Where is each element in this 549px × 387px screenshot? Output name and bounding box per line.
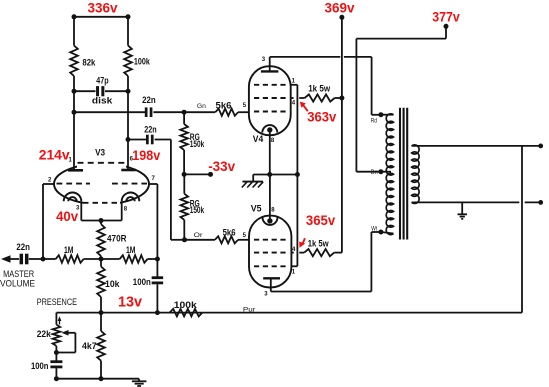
svg-text:100n: 100n <box>31 361 49 371</box>
wire 100k to node <box>127 76 129 91</box>
resistor 1k 5w upper <box>305 94 335 101</box>
tube V4 envelope <box>249 66 291 135</box>
V3 pin3 wire <box>80 201 82 220</box>
svg-text:377v: 377v <box>432 9 460 25</box>
V4 pin1 wire <box>291 84 298 86</box>
wire Pur feedback <box>202 312 522 314</box>
node 336v rail <box>74 16 128 18</box>
svg-text:Or: Or <box>194 232 204 239</box>
svg-text:V3: V3 <box>95 147 105 157</box>
svg-text:22k: 22k <box>37 329 52 339</box>
capacitor 100n upper <box>156 259 158 277</box>
V4 pin4 wire <box>291 97 294 99</box>
resistor 5k6 upper <box>215 109 238 116</box>
svg-text:V4: V4 <box>253 134 263 144</box>
V5 plate pin3 <box>263 277 280 279</box>
svg-text:365v: 365v <box>306 213 335 229</box>
wire 377v to Bn <box>445 26 447 38</box>
wire 336v to 82k <box>73 17 75 46</box>
svg-text:82k: 82k <box>82 58 96 68</box>
tube V5 envelope <box>249 216 291 288</box>
svg-text:22n: 22n <box>16 242 30 252</box>
svg-text:47p: 47p <box>96 76 109 86</box>
V5 grid dashes <box>254 239 287 241</box>
svg-text:V5: V5 <box>251 203 262 213</box>
capacitor 22n upper coupling <box>72 110 77 115</box>
ground chassis center <box>252 175 254 182</box>
tube V3 bottom dashed <box>83 202 121 204</box>
svg-text:198v: 198v <box>132 148 160 164</box>
svg-text:5k6: 5k6 <box>223 227 236 237</box>
svg-text:Wt: Wt <box>371 226 377 232</box>
V3 grid pin7 wire <box>148 183 157 185</box>
resistor 100k feedback <box>170 309 203 317</box>
wire ground rail <box>56 378 139 380</box>
input arrow MASTER VOLUME <box>1 255 11 263</box>
svg-text:1k 5w: 1k 5w <box>308 239 330 249</box>
V4 cathode <box>262 125 277 132</box>
tap Bn <box>378 169 383 174</box>
wire cathodes join <box>81 220 121 222</box>
V4 pin8 wire <box>269 130 271 175</box>
ground earth bottom <box>138 379 140 381</box>
resistor 5k6 lower <box>215 236 238 243</box>
ground earth secondary <box>461 202 463 214</box>
V3 grid pin2 wire <box>43 183 55 185</box>
V3 plate pin6 <box>127 140 129 170</box>
svg-text:-33v: -33v <box>208 159 235 175</box>
capacitor 22n lower coupling <box>126 137 131 142</box>
svg-text:470R: 470R <box>107 234 127 244</box>
svg-text:1M: 1M <box>126 245 136 255</box>
V3 plate pin1 <box>73 112 75 169</box>
V5 pin8 wire <box>269 175 271 221</box>
V5 pin1 wire <box>291 265 297 267</box>
transformer primary winding <box>386 114 393 235</box>
tap Wt <box>378 230 383 235</box>
svg-text:40v: 40v <box>56 209 78 225</box>
svg-text:100k: 100k <box>174 300 198 310</box>
V4 grid dashes <box>254 84 287 86</box>
svg-text:13v: 13v <box>118 294 142 310</box>
resistor 4k7 <box>100 313 102 331</box>
transformer secondary winding <box>412 145 420 204</box>
svg-text:100n: 100n <box>133 277 151 287</box>
resistor 470R <box>100 221 102 225</box>
svg-text:150k: 150k <box>190 205 205 215</box>
svg-text:214v: 214v <box>39 147 70 163</box>
resistor RG 150k upper <box>183 112 185 124</box>
capacitor 100n presence <box>50 360 62 363</box>
svg-text:363v: 363v <box>307 110 336 126</box>
wire secondary bottom <box>412 201 520 203</box>
V4 plate pin3 <box>261 70 279 72</box>
resistor 1M left <box>43 258 56 260</box>
resistor RG 150k lower <box>183 174 185 193</box>
capacitor 22n input <box>20 254 24 265</box>
svg-text:336v: 336v <box>88 1 118 17</box>
svg-text:22n: 22n <box>142 95 156 105</box>
resistor 1M right <box>101 258 120 260</box>
V3 pin8 wire <box>121 201 123 220</box>
capacitor 47p disk <box>74 90 96 92</box>
svg-text:150k: 150k <box>190 139 205 149</box>
V3 cathode right <box>122 193 140 202</box>
resistor 1k 5w lower <box>304 249 334 256</box>
pot wiper <box>62 330 69 336</box>
wire 336v to 100k <box>127 17 129 46</box>
V5 cathode <box>263 217 278 225</box>
wire right plate node down <box>127 91 129 139</box>
potentiometer 22k presence <box>55 313 57 325</box>
wire V4 plate to Rd <box>270 56 341 58</box>
svg-text:100k: 100k <box>134 57 151 67</box>
V5 pin4 wire <box>291 252 293 254</box>
tap Rd <box>378 112 383 117</box>
node presence rail <box>56 312 202 314</box>
node -33v bias <box>182 172 187 177</box>
svg-text:10k: 10k <box>105 279 120 289</box>
resistor 10k <box>100 259 102 267</box>
wire 82k to node <box>73 76 75 91</box>
svg-text:Rd: Rd <box>371 118 377 124</box>
svg-text:Gn: Gn <box>197 103 206 110</box>
svg-text:PRESENCE: PRESENCE <box>37 297 77 308</box>
svg-text:Pur: Pur <box>243 306 257 313</box>
transformer core <box>399 108 401 240</box>
svg-text:369v: 369v <box>325 1 355 17</box>
wire secondary top <box>412 145 541 147</box>
wire lower 22n to Or node <box>170 140 172 240</box>
svg-text:22n: 22n <box>144 125 157 135</box>
svg-text:4k7: 4k7 <box>82 341 97 351</box>
wire grid2 drop <box>42 184 44 259</box>
wire left plate node down <box>73 91 75 112</box>
svg-text:1k 5w: 1k 5w <box>308 84 331 94</box>
resistor 82k <box>70 46 78 77</box>
tube V3 top dashed <box>78 162 125 164</box>
suppressor rail <box>296 85 298 266</box>
svg-text:VOLUME: VOLUME <box>0 279 35 290</box>
wire V5 plate to Wt <box>271 291 372 293</box>
tube V3 envelope <box>54 164 149 205</box>
svg-text:5k6: 5k6 <box>216 100 232 110</box>
svg-text:Bn: Bn <box>371 170 378 176</box>
resistor 100k plate load <box>124 46 132 77</box>
svg-text:disk: disk <box>92 96 114 106</box>
wire 369v rail <box>341 17 343 252</box>
cathode node wire <box>253 174 297 176</box>
wire grid7 drop <box>156 184 158 259</box>
V3 cathode left <box>64 193 82 202</box>
svg-text:1M: 1M <box>64 245 74 255</box>
